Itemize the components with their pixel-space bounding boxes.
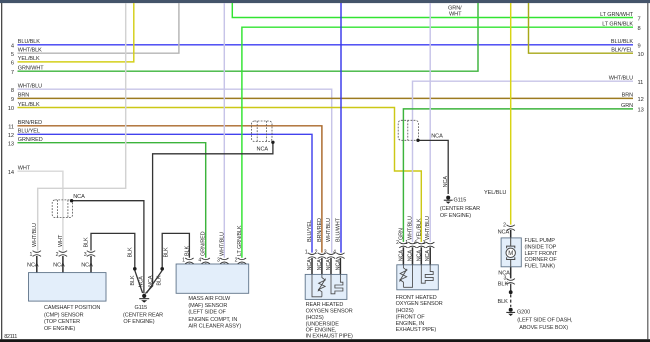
svg-text:13: 13 [8, 141, 14, 147]
front HO2S sensor arrow [400, 269, 407, 281]
svg-text:NCA: NCA [431, 134, 443, 140]
svg-text:8: 8 [11, 88, 14, 94]
svg-text:(CENTER REAR: (CENTER REAR [123, 312, 163, 318]
fuel pump box [501, 238, 521, 267]
svg-text:BLU/YEL: BLU/YEL [307, 220, 313, 242]
svg-text:(FRONT OF: (FRONT OF [396, 315, 426, 321]
svg-text:WHT/BLU: WHT/BLU [609, 76, 633, 82]
svg-text:FUEL PUMP: FUEL PUMP [525, 238, 556, 244]
svg-text:6: 6 [11, 61, 14, 67]
wire GRN/RED row 13, down at x206.4 to MAF pin 4 [18, 143, 206, 258]
svg-text:LEFT FRONT: LEFT FRONT [525, 251, 559, 257]
connector MAF pin 2 [238, 258, 246, 264]
svg-text:LT GRN/WHT: LT GRN/WHT [600, 12, 634, 18]
svg-text:NCA: NCA [73, 194, 85, 200]
connector fuel pump pin 2 [507, 225, 515, 231]
svg-text:(UNDERSIDE: (UNDERSIDE [306, 321, 340, 327]
wire GRN right row 13, down at x403.4 to front HO2S pin 2 [403, 109, 633, 242]
connector MAF pin 1 [185, 258, 193, 264]
svg-text:BLU/BLK: BLU/BLK [611, 39, 633, 45]
connector fuel pump pin 3 [507, 279, 515, 285]
svg-text:YEL/BLK: YEL/BLK [416, 218, 422, 240]
connector MAF pin 3 [220, 258, 228, 264]
svg-text:(MAF) SENSOR: (MAF) SENSOR [188, 303, 227, 309]
svg-text:EXHAUST PIPE): EXHAUST PIPE) [396, 327, 437, 333]
svg-text:G200: G200 [517, 310, 530, 316]
svg-text:(CMP) SENSOR: (CMP) SENSOR [44, 312, 84, 318]
splice dot NCA 1 [271, 141, 274, 144]
wire BLU/WHT from top to rear HO2S pin 4 [340, 3, 342, 253]
svg-text:7: 7 [11, 70, 14, 76]
svg-text:(LEFT SIDE OF DASH,: (LEFT SIDE OF DASH, [517, 317, 573, 323]
front HO2S sensor element zigzag [400, 265, 412, 288]
svg-text:YEL/BLK: YEL/BLK [18, 102, 40, 108]
svg-text:OF ENGINE): OF ENGINE) [44, 326, 75, 332]
splice dot BLK right [160, 267, 164, 271]
svg-text:3: 3 [324, 250, 327, 256]
border frame right edge [647, 3, 648, 339]
svg-text:1: 1 [30, 252, 33, 258]
svg-text:11: 11 [8, 124, 14, 130]
svg-text:(HO2S): (HO2S) [306, 315, 324, 321]
svg-text:9: 9 [638, 44, 641, 50]
shield connector NCA 1 (BRN/RED + BLU/YEL) [252, 121, 273, 142]
border frame top bar [0, 0, 650, 3]
svg-text:OF ENGINE): OF ENGINE) [440, 213, 471, 219]
svg-text:NCA: NCA [307, 259, 313, 271]
svg-text:NCA: NCA [416, 250, 422, 262]
svg-text:OXYGEN SENSOR: OXYGEN SENSOR [396, 301, 443, 307]
svg-text:BLK: BLK [130, 275, 136, 285]
svg-text:WHT: WHT [58, 234, 64, 247]
rear HO2S sensor arrow [318, 279, 325, 291]
wire BRN/RED row 11, down at x322 to rear HO2S pin 2 [18, 126, 322, 253]
wire BLK diagonal right splice to G115 [147, 270, 163, 293]
wire YEL/BLK row 6, up at x134 to top [18, 3, 134, 62]
svg-text:OF ENGINE): OF ENGINE) [123, 319, 154, 325]
wire fuel pump ground BLK dashed [510, 294, 512, 307]
svg-text:4: 4 [198, 258, 201, 264]
svg-text:GRN/WHT: GRN/WHT [18, 66, 44, 72]
svg-text:NCA: NCA [138, 276, 144, 288]
svg-text:LT GRN/BLK: LT GRN/BLK [237, 225, 243, 256]
svg-text:GRN: GRN [398, 228, 404, 240]
wire YEL/BLK row 10, down at x394.5, jog to x421.3, to front HO2S pin 4 [18, 108, 422, 242]
svg-text:3: 3 [84, 252, 87, 258]
wire BLK diagonal left splice to G115 [135, 270, 143, 293]
svg-text:4: 4 [11, 43, 14, 49]
connector CMP pin 1 [33, 251, 41, 257]
svg-text:GRN/RED: GRN/RED [18, 137, 43, 143]
svg-text:WHT/BLU: WHT/BLU [425, 216, 431, 240]
svg-text:YEL/BLU: YEL/BLU [484, 190, 506, 196]
svg-text:M: M [508, 251, 513, 257]
svg-text:G115: G115 [134, 305, 147, 311]
svg-text:GRN: GRN [621, 103, 633, 109]
svg-text:BLK/YEL: BLK/YEL [611, 48, 633, 54]
svg-text:(TOP CENTER: (TOP CENTER [44, 319, 80, 325]
wire LT GRN/BLK right row 8, down at x242.7 to MAF pin 2 [242, 27, 633, 258]
svg-text:12: 12 [8, 133, 14, 139]
svg-text:8: 8 [638, 26, 641, 32]
connector front HO2S pin 1 [408, 242, 416, 248]
svg-text:2: 2 [315, 250, 318, 256]
wire BLU/BLK row 4 left to row 9 right [18, 44, 634, 46]
wire fuel pump top stub [510, 230, 512, 238]
splice dot BLK left [133, 267, 137, 271]
svg-text:IN EXHAUST PIPE): IN EXHAUST PIPE) [306, 333, 353, 339]
svg-text:YEL/BLK: YEL/BLK [18, 56, 40, 62]
svg-text:WHT/BLK: WHT/BLK [18, 48, 42, 54]
svg-text:ABOVE FUSE BOX): ABOVE FUSE BOX) [519, 325, 568, 331]
svg-text:NCA: NCA [335, 259, 341, 271]
svg-text:OXYGEN SENSOR: OXYGEN SENSOR [306, 308, 353, 314]
svg-text:WHT/BLU: WHT/BLU [326, 218, 332, 242]
MAF sensor box [176, 264, 249, 293]
svg-text:BRN/RED: BRN/RED [18, 120, 42, 126]
svg-text:NCA: NCA [81, 263, 93, 269]
svg-text:10: 10 [8, 106, 14, 112]
svg-text:FRONT HEATED: FRONT HEATED [396, 295, 437, 301]
CMP sensor box [29, 273, 107, 302]
svg-text:NCA: NCA [148, 275, 154, 287]
svg-text:LT GRN/BLK: LT GRN/BLK [602, 22, 633, 28]
svg-text:WHT: WHT [449, 12, 462, 18]
svg-text:3: 3 [217, 258, 220, 264]
front HO2S heater element [421, 265, 433, 283]
connector front HO2S pin 2 [399, 242, 407, 248]
wire front HO2S pin stubs [403, 247, 430, 264]
wire WHT/BLU row 8, down at x331.7 to rear HO2S pin 3 [18, 89, 332, 252]
svg-text:AIR CLEANER ASSY): AIR CLEANER ASSY) [188, 323, 241, 329]
connector front HO2S pin 4 [417, 242, 425, 248]
border frame left edge [1, 3, 2, 339]
connector CMP pin 3 [87, 251, 95, 257]
svg-text:2: 2 [56, 252, 59, 258]
svg-text:GRN/: GRN/ [448, 5, 462, 11]
svg-text:CORNER OF: CORNER OF [525, 257, 558, 263]
ground G115 symbol [139, 294, 149, 303]
wire WHT/BLU from top to CMP pin 1 [38, 3, 126, 251]
svg-text:WHT/BLU: WHT/BLU [408, 216, 414, 240]
svg-text:7: 7 [638, 16, 641, 22]
svg-text:MASS AIR FOLW: MASS AIR FOLW [188, 296, 231, 302]
svg-text:BLU/BLK: BLU/BLK [18, 39, 40, 45]
svg-text:WHT/BLU: WHT/BLU [32, 223, 38, 247]
wire WHT/BLU from top to front HO2S pin 3 [429, 3, 431, 242]
wire NCA shield drain 3 to G115 [72, 201, 144, 294]
rear HO2S heater element [331, 274, 343, 293]
wire BLK MAF pin 1 to splice [162, 233, 189, 267]
shield connector NCA 3 (WHT) [52, 200, 72, 218]
svg-text:WHT/BLU: WHT/BLU [18, 84, 42, 90]
connector rear HO2S pin 2 [318, 253, 326, 259]
svg-text:GRN/RED: GRN/RED [201, 231, 207, 256]
svg-text:9: 9 [11, 97, 14, 103]
svg-text:NCA: NCA [317, 259, 323, 271]
wire NCA shield drain 1 to G115 [145, 143, 273, 294]
svg-text:13: 13 [638, 108, 644, 114]
wire MAF pin stubs [189, 262, 242, 265]
svg-text:NCA: NCA [425, 250, 431, 262]
wire CMP pin 2 stub [62, 256, 64, 273]
svg-text:(LEFT SIDE OF: (LEFT SIDE OF [188, 310, 226, 316]
connector front HO2S pin 3 [426, 242, 434, 248]
splice dot fuel pump BLK [509, 290, 513, 294]
svg-text:BRN: BRN [18, 93, 29, 99]
wire rear HO2S pin stubs [312, 258, 340, 274]
wire GRN/WHT row 7, up at x478 to top [18, 3, 479, 71]
svg-text:ENGINE, IN: ENGINE, IN [396, 321, 425, 327]
wire WHT/BLK row 5, up at x179 to top [18, 3, 179, 53]
wire fuel pump ground BLK solid [510, 284, 512, 292]
shield connector NCA 2 (GRN + WHT/BLU) [398, 120, 418, 140]
rear HO2S box [305, 274, 347, 299]
wire BLU/YEL row 12, down at x312.5 to rear HO2S pin 1 [18, 134, 313, 252]
svg-text:NCA: NCA [257, 147, 269, 153]
svg-text:10: 10 [638, 52, 644, 58]
svg-text:BLU/YEL: BLU/YEL [18, 129, 40, 135]
wire WHT/BLU from top to MAF pin 3 [223, 3, 225, 258]
connector rear HO2S pin 4 [336, 253, 344, 259]
svg-text:NCA: NCA [27, 263, 39, 269]
svg-text:(HO2S): (HO2S) [396, 308, 414, 314]
wire WHT/BLU right row 11, down at x412.5 to front HO2S pin 1 [413, 81, 634, 242]
front HO2S box [397, 265, 439, 290]
svg-text:G115: G115 [454, 197, 467, 203]
svg-text:FUEL TANK): FUEL TANK) [525, 263, 556, 269]
svg-text:2: 2 [503, 223, 506, 229]
connector rear HO2S pin 3 [327, 253, 335, 259]
svg-text:WHT/BLU: WHT/BLU [219, 232, 225, 256]
wire fuel pump bottom stub [510, 267, 512, 279]
ground G115 right symbol [444, 196, 453, 204]
svg-text:2: 2 [235, 258, 238, 264]
svg-text:11: 11 [638, 80, 644, 86]
svg-text:NCA: NCA [443, 176, 449, 188]
svg-text:BLK: BLK [498, 282, 509, 288]
connector rear HO2S pin 1 [308, 253, 316, 259]
svg-text:REAR HEATED: REAR HEATED [306, 302, 344, 308]
wire BLK/YEL right row 10, up at x528.5 to top [529, 3, 634, 53]
splice dot NCA 3 [70, 199, 73, 202]
wire CMP pin 3 stub [90, 256, 92, 273]
svg-text:(INSIDE TOP: (INSIDE TOP [525, 245, 557, 251]
svg-text:WHT: WHT [18, 166, 31, 172]
svg-text:BRN: BRN [622, 93, 633, 99]
splice dot NCA 2 [416, 139, 419, 142]
wire NCA shield drain 2 to G115 right [419, 140, 449, 194]
svg-text:CAMSHAFT POSITION: CAMSHAFT POSITION [44, 305, 100, 311]
svg-text:BLK: BLK [84, 237, 90, 247]
svg-text:NCA: NCA [398, 250, 404, 262]
svg-text:NCA: NCA [53, 263, 65, 269]
svg-text:BLU/WHT: BLU/WHT [335, 217, 341, 242]
svg-text:BRN/RED: BRN/RED [317, 218, 323, 242]
ground G200 symbol [506, 308, 515, 316]
svg-text:NCA: NCA [326, 259, 332, 271]
wire LT GRN/WHT right row 7, up at x232.3 to top [232, 3, 633, 18]
connector CMP pin 2 [59, 251, 67, 257]
rear HO2S sensor element zigzag [312, 274, 325, 296]
svg-text:NCA: NCA [498, 230, 510, 236]
svg-text:BLK: BLK [163, 247, 169, 257]
svg-text:12: 12 [638, 97, 644, 103]
svg-text:14: 14 [8, 170, 14, 176]
wire BRN row 9 left to row 12 right [18, 97, 634, 99]
connector MAF pin 4 [202, 258, 210, 264]
svg-text:82111: 82111 [4, 334, 17, 340]
svg-text:5: 5 [11, 52, 14, 58]
border frame bottom bar [0, 339, 650, 342]
svg-text:(CENTER REAR: (CENTER REAR [440, 206, 480, 212]
svg-text:NCA: NCA [408, 250, 414, 262]
svg-text:1: 1 [182, 258, 185, 264]
fuel pump motor symbol [506, 238, 515, 267]
svg-text:BLK: BLK [498, 299, 509, 305]
wire WHT row 14, down at x62.9 to CMP pin 2 [18, 171, 63, 250]
svg-text:BLK: BLK [157, 275, 163, 285]
wire BLK jumper CMP pin 3 to splice [91, 233, 135, 267]
svg-text:BLK: BLK [127, 247, 133, 257]
svg-text:4: 4 [333, 250, 336, 256]
svg-text:1: 1 [305, 250, 308, 256]
svg-text:ENGINE COMPT, IN: ENGINE COMPT, IN [188, 317, 237, 323]
wire YEL/BLU from top to fuel pump pin 2 [510, 3, 512, 225]
svg-text:BLK: BLK [184, 246, 190, 256]
wire CMP pin 1 stub [36, 256, 38, 273]
